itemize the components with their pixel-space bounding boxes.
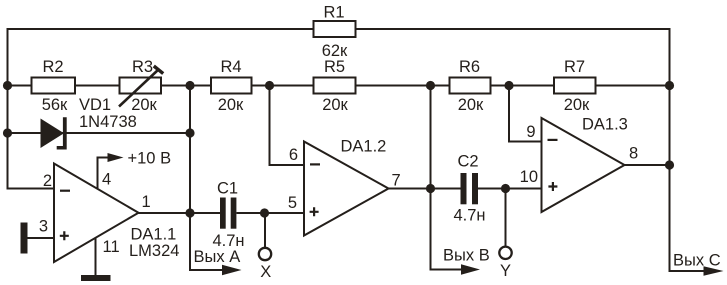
svg-text:Вых С: Вых С [673, 252, 721, 270]
wire zener row [8, 132, 191, 134]
wire vertical node B from R5-R6 node through DA1.2 output to output B arrow [431, 86, 463, 270]
wire DA1.3 output pin 8 [625, 164, 670, 166]
wire between R7 and right rail [596, 85, 670, 87]
capacitor C2 right plate [472, 173, 478, 204]
chassis terminal at pin 3 [21, 223, 28, 254]
wire C2 to DA1.3 pin 10 [478, 188, 542, 190]
wire between R3 and R4 [161, 85, 211, 87]
junction node left rail / zener [3, 128, 12, 137]
junction node left rail / R2 [3, 81, 12, 90]
trimmer diagonal of R3 [119, 70, 159, 107]
wire output A drop and arrow [190, 213, 224, 270]
svg-text:5: 5 [288, 194, 297, 212]
wire DA1.2 output to C2 [389, 188, 461, 190]
svg-text:DA1.2: DA1.2 [341, 138, 387, 156]
junction R6-R7 node [504, 81, 513, 90]
svg-text:20к: 20к [322, 96, 348, 114]
wire DA1.1 inverting input pin 2 [8, 188, 55, 190]
svg-text:1: 1 [142, 193, 151, 211]
capacitor C1 right plate [231, 198, 237, 229]
svg-text:Вых А: Вых А [194, 248, 241, 266]
svg-text:R6: R6 [459, 58, 480, 76]
svg-text:Y: Y [500, 262, 511, 280]
zener diode VD1 triangle [41, 119, 65, 149]
svg-text:11: 11 [103, 238, 120, 256]
svg-text:C2: C2 [457, 153, 478, 171]
terminal Y circle [499, 247, 511, 259]
wire DA1.3 pin 9 feedback from R6-R7 node [509, 86, 542, 142]
wire resistor row R2 lead from left rail [8, 85, 32, 87]
svg-text:20к: 20к [218, 96, 244, 114]
svg-text:DA1.3: DA1.3 [582, 116, 628, 134]
plus sign DA1.2 [310, 207, 319, 216]
svg-text:LM324: LM324 [129, 242, 179, 260]
plus sign DA1.3 [548, 182, 557, 191]
wire DA1.1 pin 11 to ground [95, 237, 97, 275]
arrowhead output A [222, 265, 242, 275]
junction R5-R6 node [426, 81, 435, 90]
arrowhead output B [461, 264, 480, 274]
resistor R5 [314, 78, 356, 94]
wire vertical node A from resistor row to DA1.1 output [189, 86, 191, 214]
junction R4-R5 node [265, 81, 274, 90]
svg-text:+10 В: +10 В [128, 150, 172, 168]
resistor R4 [211, 78, 252, 94]
wire between R4 and R5 [252, 85, 314, 87]
minus sign DA1.2 [310, 163, 320, 165]
plus sign DA1.1 [60, 231, 69, 240]
svg-text:8: 8 [629, 145, 638, 163]
svg-text:Вых В: Вых В [443, 247, 490, 265]
capacitor C2 left plate [461, 173, 467, 204]
ground symbol [81, 275, 111, 281]
junction C2 right / Y [501, 184, 510, 193]
wire between R2 and R3 [75, 85, 120, 87]
junction right rail / R7 [665, 81, 674, 90]
resistor R1 [314, 21, 356, 37]
minus sign DA1.1 [60, 190, 70, 192]
svg-text:VD1: VD1 [79, 96, 111, 114]
wire DA1.1 output to C1 [139, 212, 221, 214]
minus sign DA1.3 [548, 139, 558, 141]
resistor R6 [450, 78, 491, 94]
wire between R5 and R6 [356, 85, 450, 87]
svg-text:C1: C1 [217, 180, 238, 198]
svg-text:R1: R1 [323, 4, 344, 22]
svg-text:R7: R7 [564, 58, 585, 76]
svg-text:3: 3 [39, 218, 48, 236]
arrow +10 V [108, 153, 124, 162]
resistor R2 [32, 78, 76, 94]
svg-text:10: 10 [520, 168, 538, 186]
svg-text:2: 2 [43, 172, 52, 190]
svg-text:4: 4 [102, 171, 111, 189]
svg-text:4.7н: 4.7н [212, 232, 244, 250]
junction node B output [426, 184, 435, 193]
svg-text:R5: R5 [324, 58, 345, 76]
svg-text:X: X [260, 263, 271, 281]
op-amp DA1.3 [542, 118, 625, 212]
capacitor C1 left plate [220, 198, 226, 229]
svg-text:6: 6 [289, 146, 298, 164]
junction node A top [185, 81, 194, 90]
svg-text:20к: 20к [458, 96, 484, 114]
svg-text:20к: 20к [564, 96, 590, 114]
svg-text:20к: 20к [131, 96, 157, 114]
junction node A output [185, 208, 194, 217]
wire drop to terminal Y [505, 189, 507, 247]
terminal X circle [259, 248, 271, 260]
svg-text:7: 7 [392, 172, 401, 190]
junction node A zener cathode [185, 128, 194, 137]
svg-text:R2: R2 [42, 58, 63, 76]
svg-text:9: 9 [526, 123, 535, 141]
wire DA1.1 noninverting input pin 3 [24, 237, 54, 239]
svg-text:R3: R3 [132, 58, 153, 76]
wire DA1.2 pin 6 feedback from R4-R5 node [270, 86, 305, 166]
wire between R6 and R7 [491, 85, 555, 87]
trimmer tee stroke of R3 [154, 66, 163, 74]
wire drop to terminal X [264, 213, 266, 248]
svg-text:4.7н: 4.7н [453, 207, 485, 225]
resistor R7 [554, 78, 596, 94]
svg-text:DA1.1: DA1.1 [131, 226, 177, 244]
op-amp DA1.2 [304, 142, 389, 236]
svg-text:56к: 56к [42, 96, 68, 114]
junction C1 right / X [260, 208, 269, 217]
zener VD1 cathode bar with tail [57, 117, 67, 149]
op-amp DA1.1 [54, 164, 139, 263]
wire C1 to DA1.2 pin 5 [237, 212, 305, 214]
svg-text:1N4738: 1N4738 [79, 113, 137, 131]
junction right rail / pin 8 [665, 160, 674, 169]
wire top rail right segment into right rail down to output C arrow [356, 29, 705, 271]
wire top rail left segment [8, 29, 314, 189]
resistor R3 trimmer [120, 78, 162, 94]
arrowhead output C [704, 266, 724, 275]
svg-text:R4: R4 [220, 58, 241, 76]
wire DA1.1 power pin 4 [98, 158, 110, 190]
